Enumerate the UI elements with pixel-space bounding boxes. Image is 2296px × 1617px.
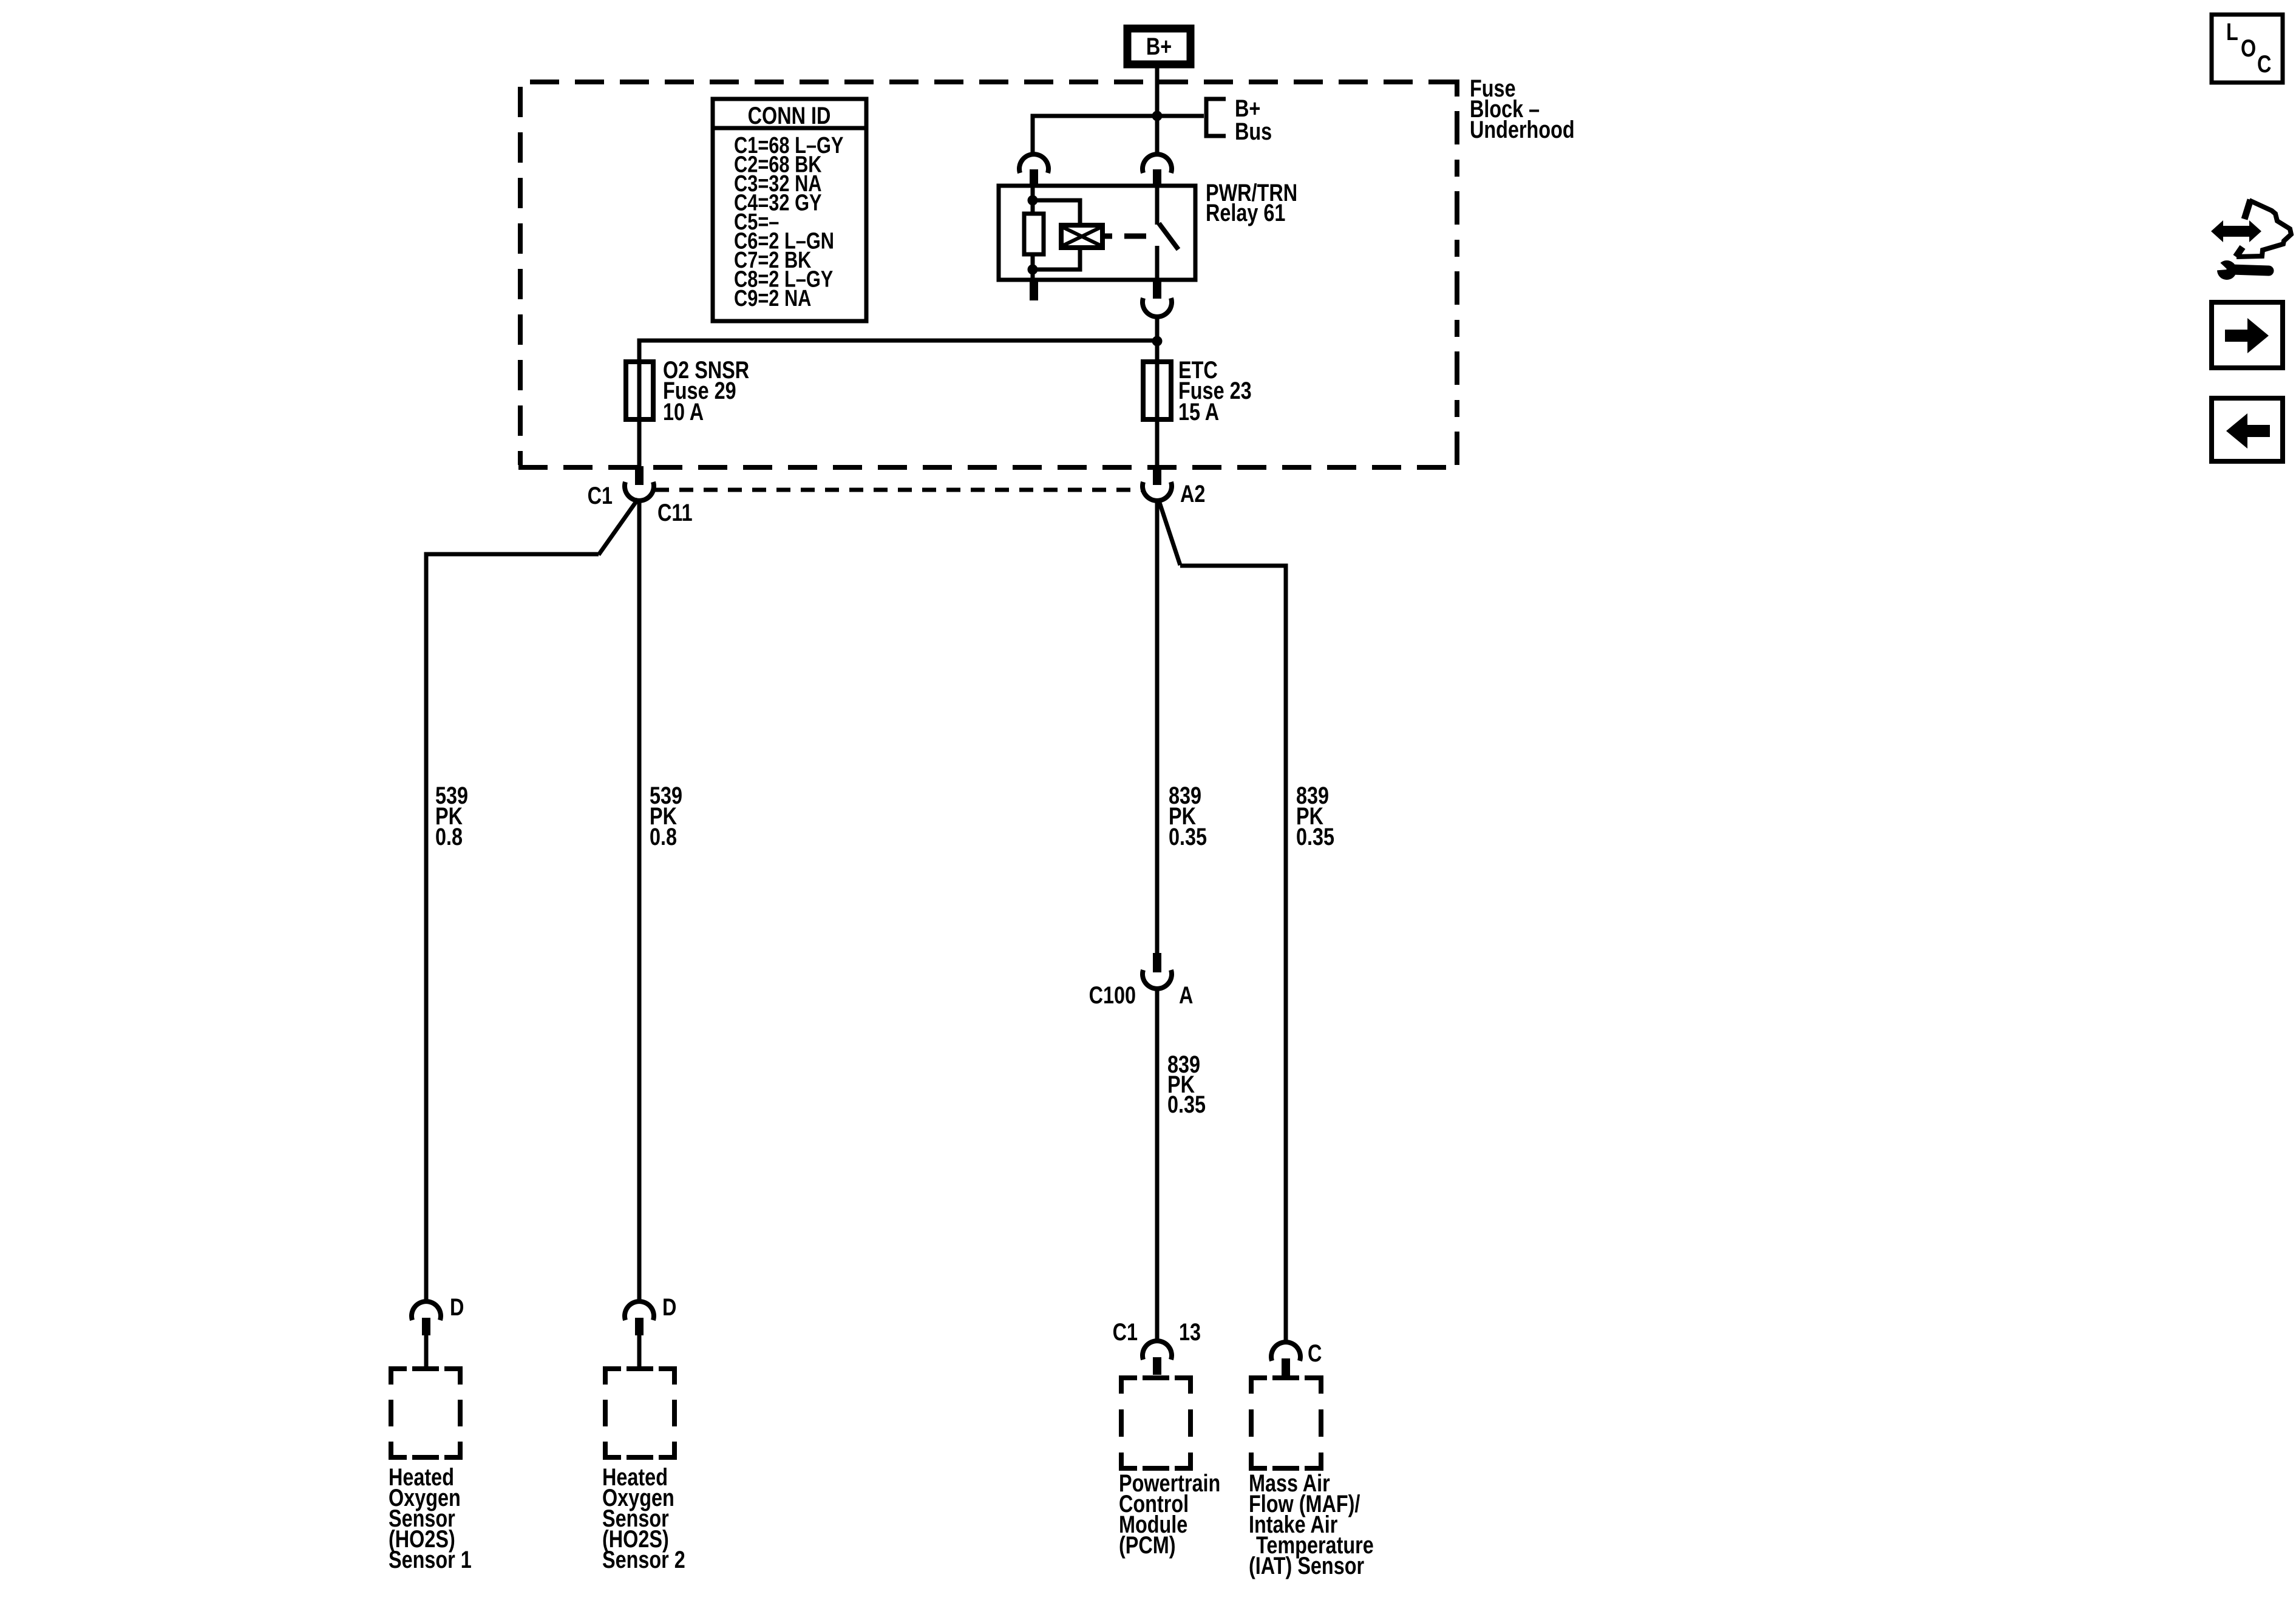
svg-text:Bus: Bus bbox=[1235, 118, 1272, 145]
svg-text:A2: A2 bbox=[1180, 480, 1205, 507]
connector arc PCM bbox=[1143, 1341, 1172, 1360]
svg-text:0.8: 0.8 bbox=[435, 823, 463, 850]
wire coil bottom to solenoid bbox=[1033, 248, 1080, 269]
wire label 539 PK 0.8 (HO2S 2) bbox=[650, 782, 682, 850]
svg-text:Relay 61: Relay 61 bbox=[1206, 199, 1285, 226]
connector arc into relay coil pin bbox=[1019, 154, 1048, 173]
wire into HO2S 1 bbox=[424, 1335, 429, 1367]
connector arc below relay bbox=[1143, 298, 1172, 317]
PCM dashed box bbox=[1119, 1375, 1193, 1471]
relay switch contact bottom bbox=[1155, 246, 1160, 280]
svg-text:C9=2 NA: C9=2 NA bbox=[734, 286, 811, 311]
pin stub MAF bbox=[1282, 1358, 1290, 1375]
fuse 23 label bbox=[1178, 356, 1252, 425]
svg-text:C11: C11 bbox=[657, 499, 693, 526]
connector D arc (HO2S 1) bbox=[412, 1301, 441, 1320]
wire relay out to junction bbox=[1155, 316, 1160, 341]
wire label 539 PK 0.8 (HO2S 1) bbox=[435, 782, 468, 850]
svg-text:O: O bbox=[2241, 35, 2256, 62]
relay switch contact top bbox=[1155, 186, 1160, 225]
HO2S sensor 2 label bbox=[602, 1463, 685, 1573]
wire through ETC fuse bbox=[1155, 341, 1160, 467]
PCM label bbox=[1119, 1470, 1220, 1559]
connector C1 arc bbox=[625, 482, 654, 501]
relay label bbox=[1206, 179, 1297, 226]
svg-text:CONN ID: CONN ID bbox=[748, 102, 831, 129]
CONN ID table bbox=[713, 99, 866, 321]
svg-text:C: C bbox=[1308, 1340, 1322, 1367]
svg-text:0.35: 0.35 bbox=[1296, 823, 1334, 850]
svg-text:0.8: 0.8 bbox=[650, 823, 677, 850]
wire C1 diagonal to HO2S 1 column bbox=[426, 499, 638, 1301]
fuse 23 ETC bbox=[1143, 362, 1171, 419]
svg-text:Underhood: Underhood bbox=[1470, 116, 1575, 143]
wire label 839 PK 0.35 (MAF) bbox=[1296, 782, 1334, 850]
wire label 839 PK 0.35 (PCM) bbox=[1169, 782, 1207, 850]
svg-text:A: A bbox=[1179, 981, 1193, 1009]
wire coil top to solenoid bbox=[1033, 200, 1080, 226]
relay coil resistor bbox=[1024, 214, 1044, 254]
wire label 839 PK 0.35 (below C100) bbox=[1167, 1051, 1206, 1118]
wire through O2 fuse bbox=[637, 362, 642, 467]
connector arc MAF bbox=[1271, 1342, 1300, 1361]
pin stub C100 bbox=[1153, 953, 1161, 972]
svg-text:13: 13 bbox=[1179, 1318, 1201, 1346]
svg-text:C1: C1 bbox=[588, 482, 613, 509]
pin stub C1 bbox=[635, 466, 644, 485]
svg-text:C1: C1 bbox=[1113, 1318, 1138, 1346]
B+ Bus bracket terminal bbox=[1206, 95, 1272, 145]
pin stub A2 bbox=[1153, 466, 1161, 485]
svg-text:B+: B+ bbox=[1146, 33, 1172, 60]
connector arc into relay switch pin bbox=[1143, 154, 1172, 173]
svg-text:D: D bbox=[450, 1293, 464, 1321]
connector C100 arc bbox=[1143, 970, 1172, 989]
pin stub relay switch bbox=[1153, 169, 1161, 186]
fuse block underhood dashed border bbox=[518, 80, 1457, 467]
pin stub below relay coil bbox=[1030, 280, 1038, 300]
node fuse feed junction bbox=[1152, 336, 1163, 347]
svg-text:C: C bbox=[2257, 50, 2271, 78]
wire A2 down to PCM bbox=[1155, 500, 1160, 953]
forward nav box bbox=[2212, 302, 2283, 368]
connector D arc (HO2S 2) bbox=[625, 1301, 654, 1320]
pin stub D (HO2S 1) bbox=[422, 1318, 430, 1335]
node coil top bbox=[1028, 195, 1038, 206]
solenoid actuator stub bbox=[1102, 234, 1112, 239]
MAF dashed box bbox=[1249, 1375, 1323, 1471]
svg-text:Sensor 1: Sensor 1 bbox=[389, 1546, 472, 1573]
svg-text:D: D bbox=[662, 1293, 676, 1321]
pin stub PCM bbox=[1153, 1357, 1161, 1375]
relay U61 PWR/TRN box bbox=[999, 186, 1195, 280]
relay coil branch wire bbox=[1031, 186, 1035, 280]
fuse 29 O2 SNSR bbox=[626, 362, 653, 419]
wire into HO2S 2 bbox=[637, 1335, 642, 1367]
relay switch blade bbox=[1159, 223, 1178, 249]
back nav box bbox=[2212, 398, 2283, 461]
svg-text:Sensor 2: Sensor 2 bbox=[602, 1546, 685, 1573]
HO2S sensor 2 dashed box bbox=[603, 1366, 677, 1460]
LOC nav box bbox=[2212, 15, 2283, 83]
MAF/IAT label bbox=[1249, 1470, 1374, 1579]
wire B+ bus horizontal bbox=[1033, 116, 1204, 154]
wire C100 to PCM bbox=[1155, 988, 1160, 1341]
dotted pass-through connector line bbox=[655, 488, 1143, 492]
fuse 29 label bbox=[663, 356, 749, 425]
connector A2 arc bbox=[1143, 482, 1172, 501]
HO2S sensor 1 label bbox=[389, 1463, 472, 1573]
wire A2 diagonal to MAF column bbox=[1158, 499, 1286, 1342]
svg-text:C100: C100 bbox=[1089, 981, 1136, 1009]
svg-text:(IAT) Sensor: (IAT) Sensor bbox=[1249, 1552, 1364, 1579]
node B+ bus junction bbox=[1152, 111, 1163, 121]
actuator dashed link bbox=[1124, 234, 1146, 239]
power feed B+ box bbox=[1127, 29, 1190, 64]
node coil bottom bbox=[1028, 265, 1038, 275]
wire B+ feed down to bus junction bbox=[1155, 68, 1160, 154]
pin stub D (HO2S 2) bbox=[635, 1318, 644, 1335]
wire C11 down to HO2S 2 bbox=[637, 500, 642, 1301]
svg-text:15 A: 15 A bbox=[1178, 398, 1219, 425]
relay solenoid symbol bbox=[1061, 225, 1102, 248]
svg-text:0.35: 0.35 bbox=[1167, 1091, 1206, 1118]
pin stub below relay switch bbox=[1153, 280, 1161, 299]
HO2S sensor 1 dashed box bbox=[389, 1366, 463, 1460]
svg-text:10 A: 10 A bbox=[663, 398, 704, 425]
svg-text:L: L bbox=[2226, 18, 2238, 46]
wire feed to O2 fuse bbox=[639, 341, 1157, 362]
compare/adjust icon bbox=[2211, 200, 2291, 280]
svg-text:0.35: 0.35 bbox=[1169, 823, 1207, 850]
svg-text:(PCM): (PCM) bbox=[1119, 1531, 1176, 1559]
fuse block label bbox=[1470, 75, 1575, 143]
pin stub relay coil bbox=[1030, 169, 1038, 186]
